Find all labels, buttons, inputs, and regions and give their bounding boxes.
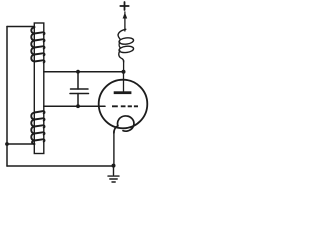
wire: bottom horizontal from left corner to ground junction bbox=[7, 165, 114, 167]
tube V1 envelope bbox=[99, 80, 148, 129]
B+ plus symbol bbox=[120, 2, 128, 10]
node: junction dot left wire / bottom tap bbox=[5, 142, 9, 146]
wire: choke to plate junction bbox=[123, 61, 125, 72]
wire: left vertical from top tap down to bottom-left corner bbox=[6, 27, 8, 167]
wire: B+ lead to choke bbox=[124, 18, 126, 31]
inductor L1 coil form (rectangle) bbox=[34, 23, 44, 154]
wire: bottom tap from left wire to coil bottom bbox=[7, 143, 35, 145]
wire: plate rail from coil to plate junction bbox=[44, 71, 124, 73]
node: junction dot cap bottom bbox=[76, 104, 80, 108]
tube V1 plate lead bbox=[123, 72, 125, 92]
B+ arrow up bbox=[124, 12, 126, 14]
capacitor C1 plates bbox=[70, 89, 89, 94]
node: junction dot cap top bbox=[76, 70, 80, 74]
node: junction dot plate/choke/rail bbox=[122, 70, 126, 74]
capacitor C1 lead bottom bbox=[77, 94, 79, 107]
wire: grid rail from coil to tube grid bbox=[44, 105, 105, 107]
inductor L1 bottom winding bbox=[31, 111, 44, 144]
node: junction dot ground bbox=[112, 164, 116, 168]
RF choke L2 bbox=[118, 29, 134, 62]
wire: top horizontal from left wire to coil top bbox=[7, 26, 35, 28]
tube V1 plate bar bbox=[114, 91, 132, 94]
inductor L1 top winding bbox=[31, 27, 44, 63]
tube V1 cathode bbox=[114, 116, 134, 133]
tube V1 grid (dashed) bbox=[112, 105, 138, 107]
capacitor C1 lead top bbox=[77, 72, 79, 89]
wire: cathode lead down to ground junction bbox=[113, 131, 115, 166]
ground symbol bbox=[113, 166, 115, 175]
